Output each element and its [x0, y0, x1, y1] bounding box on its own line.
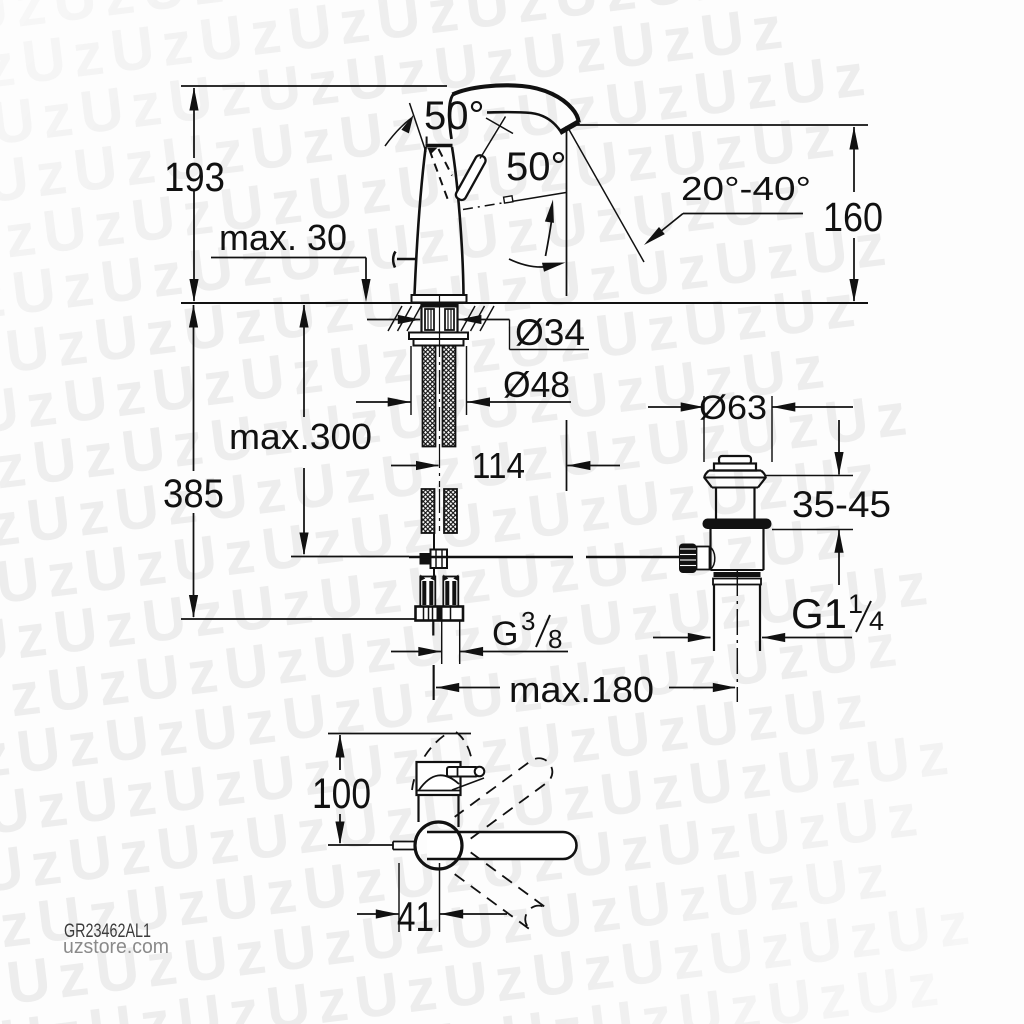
product code text [64, 921, 151, 942]
drain tailpipe [714, 585, 760, 652]
faucet centerline [439, 294, 441, 531]
G3/8 extension lines [433, 621, 459, 700]
supply hoses lower [422, 489, 458, 533]
dimension max.300 line [299, 305, 308, 556]
top reference line (max height) [181, 85, 447, 87]
handle lever [454, 154, 487, 202]
svg-text:Ø63: Ø63 [699, 389, 767, 427]
mounting washer small [414, 339, 464, 346]
drain pop-up knob [714, 456, 756, 471]
handle axis thin line [480, 117, 506, 159]
label 41 [397, 893, 434, 940]
counter top line [181, 302, 868, 304]
pop-up rod vertical pin [433, 533, 435, 577]
diameter 48 dimension [356, 397, 571, 406]
label 50 lower [506, 145, 567, 189]
connector base plate [416, 607, 464, 621]
label max180 [509, 669, 654, 710]
top view body [417, 762, 461, 827]
drain flange [704, 471, 765, 488]
label 20-40 [681, 170, 811, 207]
pop-up rod fitting [420, 550, 448, 569]
svg-text:G1: G1 [791, 590, 847, 637]
label 385 [163, 472, 224, 516]
supply hoses upper [423, 346, 456, 447]
drain centerline [736, 570, 738, 702]
svg-text:max. 30: max. 30 [219, 217, 347, 258]
svg-text:41: 41 [397, 893, 434, 940]
handle swing line dash-dot [463, 193, 566, 210]
35-45 dimension [834, 420, 843, 585]
dimension 160 line [849, 127, 858, 303]
svg-text:max.180: max.180 [509, 669, 654, 710]
svg-text:35-45: 35-45 [792, 484, 891, 525]
diameter 63 extension lines [704, 396, 772, 462]
svg-text:Ø48: Ø48 [503, 364, 570, 405]
label diameter34 [515, 312, 585, 353]
top view spout dashed left [412, 734, 447, 791]
label 193 [164, 154, 225, 200]
spout outlet vertical line [566, 126, 568, 491]
svg-text:4: 4 [869, 606, 884, 636]
swing angle up arrow [545, 200, 554, 257]
svg-text:50°: 50° [424, 94, 485, 138]
water stream line [567, 126, 644, 262]
drain side socket [697, 547, 715, 571]
svg-text:50°: 50° [506, 145, 567, 189]
svg-text:20°-40°: 20°-40° [681, 170, 811, 207]
top view lower reference line [328, 844, 393, 846]
dimension 41 [357, 909, 507, 918]
faucet neck left stub [426, 137, 428, 144]
dimension max.30 leader [211, 258, 371, 303]
pop-up rod knob left [393, 252, 415, 268]
svg-text:max.300: max.300 [229, 416, 372, 457]
faucet base plate [412, 295, 467, 303]
label 114 [472, 445, 525, 486]
dashed handle position lines [430, 149, 453, 200]
top view base circle [415, 822, 462, 869]
drain body lower [711, 529, 764, 570]
drain body upper [712, 488, 758, 520]
top view handle dashed up [455, 758, 553, 838]
dimension 41 extension lines [399, 863, 440, 932]
50deg angle arrow left [385, 103, 426, 152]
G3/8 dimension [391, 647, 568, 656]
lower reference line (hose ends) [181, 618, 416, 620]
counter hatching left [388, 306, 421, 331]
faucet neck joint bar [426, 144, 453, 148]
counter hatching right [461, 306, 494, 331]
label 160 [823, 194, 883, 240]
svg-text:Ø34: Ø34 [515, 312, 585, 353]
label G3/8 [492, 606, 562, 654]
label diameter48 [503, 364, 570, 405]
label 100 [312, 770, 371, 818]
svg-text:8: 8 [548, 624, 562, 654]
faucet spout inner curve [487, 112, 560, 130]
label max.300 [229, 416, 372, 457]
label G1-1/4 [791, 589, 884, 637]
faucet spout tip face [560, 122, 579, 133]
G1-1/4 dimension [653, 633, 852, 642]
drain knurled knob [679, 544, 697, 574]
svg-text:G: G [492, 615, 518, 653]
pop-up horizontal rod [409, 556, 679, 559]
dashed handle butt wedge [427, 148, 438, 154]
dimension 100 [335, 735, 344, 845]
faucet spout outer curve [449, 85, 579, 139]
label max. 30 [219, 217, 347, 258]
svg-text:160: 160 [823, 194, 883, 240]
label 50 upper [424, 94, 485, 138]
store url text [63, 936, 169, 958]
svg-text:100: 100 [312, 770, 371, 818]
top view pop-up rod [447, 767, 484, 790]
drain o-ring [703, 519, 772, 530]
svg-text:uzstore.com: uzstore.com [63, 936, 169, 958]
mounting washer big [409, 333, 468, 340]
50deg leader cross line [486, 118, 513, 134]
svg-text:193: 193 [164, 154, 225, 200]
hose connector right [443, 575, 458, 607]
top view handle dashed down [455, 852, 547, 930]
spout outlet reference line [572, 124, 868, 126]
dimension 114 [391, 461, 620, 470]
svg-text:114: 114 [472, 445, 525, 486]
dimension 193 line [189, 88, 198, 303]
20-40 leader [644, 214, 803, 246]
svg-text:3: 3 [521, 606, 535, 636]
top view spout dashed right [456, 732, 472, 759]
svg-text:385: 385 [163, 472, 224, 516]
max.300 reference line [291, 556, 409, 558]
label 35-45 [792, 484, 891, 525]
faucet body outline [415, 147, 464, 295]
threaded shank nuts [422, 303, 458, 333]
dimension 385 line [189, 305, 198, 619]
diameter 34 dimension [367, 315, 589, 350]
drain retaining ring [713, 572, 761, 585]
diameter 63 dimension [648, 402, 853, 411]
top view upper reference line [328, 733, 471, 735]
top view left tab [393, 842, 416, 850]
hose connector left [420, 575, 435, 607]
35-45 reference lines [766, 476, 853, 530]
label diameter63 [699, 389, 767, 427]
swing angle arc arrow [509, 259, 566, 272]
max180 dimension [434, 665, 736, 700]
diameter 48 extension lines [411, 346, 467, 415]
top view handle solid [427, 832, 577, 859]
svg-text:1: 1 [848, 589, 863, 619]
